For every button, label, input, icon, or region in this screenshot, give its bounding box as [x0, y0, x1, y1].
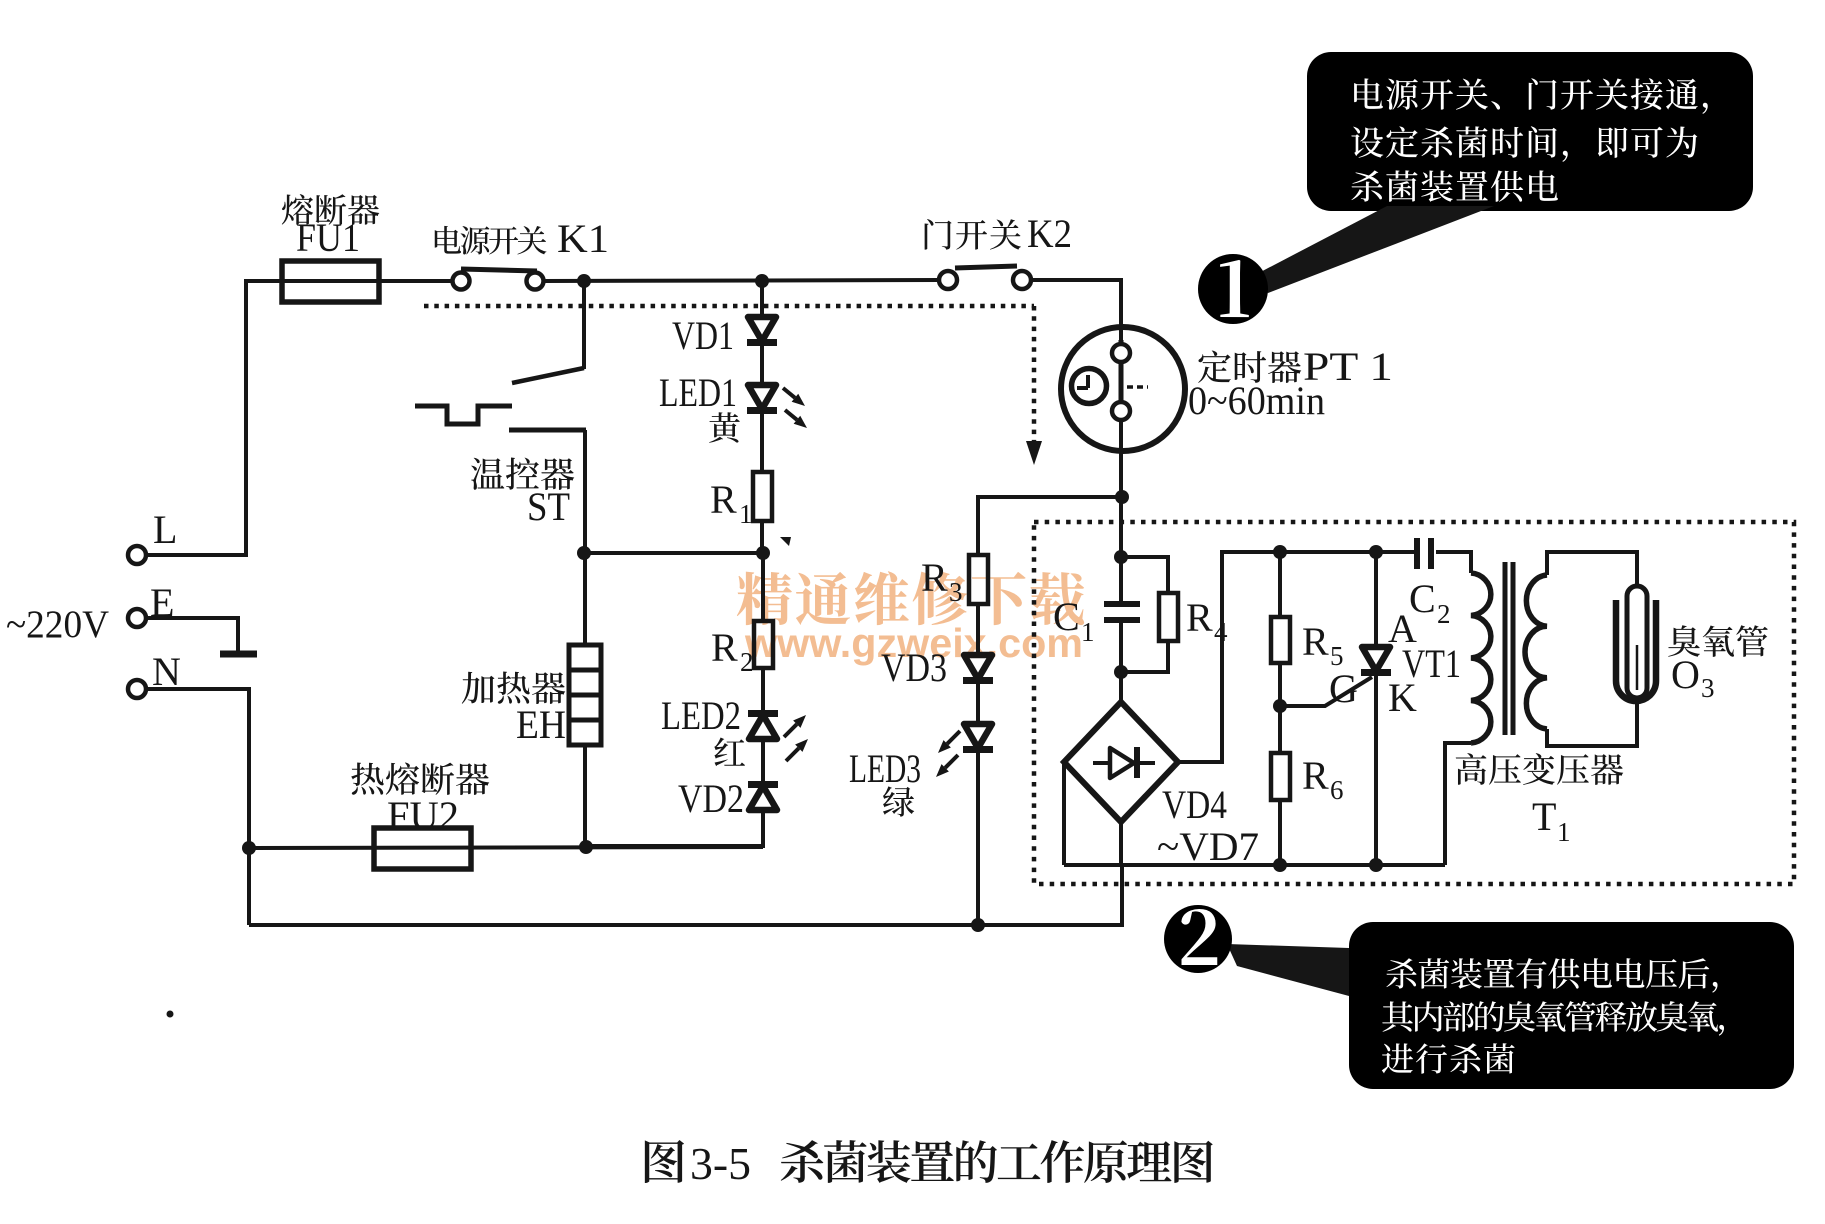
svg-text:VD1: VD1: [672, 313, 734, 358]
svg-text:C: C: [1053, 594, 1080, 639]
timer contact upper: [1119, 340, 1124, 361]
LED LED3: [964, 724, 992, 748]
callout 1 text line 3: [1351, 170, 1558, 202]
svg-text:VD3: VD3: [881, 645, 947, 690]
svg-text:FU1: FU1: [296, 215, 360, 260]
timer clock icon: [1072, 369, 1107, 404]
callout 1 marker circle: [1198, 254, 1268, 324]
wire R1 to node: [760, 521, 764, 553]
heater EH: [569, 645, 601, 745]
wire VD3-LED3: [976, 684, 980, 724]
svg-text:R: R: [711, 625, 738, 670]
LED LED2: [748, 710, 778, 717]
callout 1 text line 1: [1354, 78, 1708, 114]
wire bottom bus: [249, 865, 1122, 925]
node junction R1 bottom: [756, 546, 770, 560]
wire secondary top: [1547, 552, 1637, 588]
ozone tube O3: [1616, 600, 1656, 701]
wire FU1 to K1: [379, 279, 452, 283]
wire G node to R6: [1278, 706, 1282, 753]
svg-text:VD4: VD4: [1162, 782, 1227, 827]
svg-text:T: T: [1532, 794, 1556, 839]
resistor R1: [753, 472, 772, 521]
wire R2-LED2: [761, 667, 765, 714]
wire VD1 branch: [760, 281, 764, 317]
svg-text:3: 3: [949, 577, 963, 607]
wire C2 to transformer: [1436, 552, 1471, 573]
callout 1 tail: [1251, 206, 1494, 293]
terminal L: [128, 546, 146, 564]
resistor R2: [754, 621, 773, 668]
thermostat ST bimetal: [415, 406, 512, 424]
label 门开关: [925, 219, 1021, 250]
bridge diode symbol: [1093, 761, 1155, 765]
wire R5 top: [1278, 552, 1282, 617]
wire timer node to R3: [978, 497, 1122, 555]
wire R4 bottom: [1121, 641, 1168, 672]
node junction K1-ST: [577, 274, 591, 288]
node junction ST row left: [577, 546, 591, 560]
wire secondary bottom: [1547, 701, 1637, 746]
fuse FU2: [374, 828, 471, 869]
callout 2 text line 2: [1382, 1001, 1724, 1036]
svg-text:LED2: LED2: [661, 693, 741, 738]
svg-text:~220V: ~220V: [6, 603, 109, 646]
wire R3-VD3: [976, 604, 980, 655]
node junction G: [1273, 699, 1287, 713]
transformer T1 secondary: [1525, 575, 1547, 729]
switch K2 contact left: [939, 271, 957, 289]
wire L to FU1: [146, 281, 452, 555]
switch K2 contact right: [1013, 271, 1031, 289]
wire K2 to timer: [1031, 280, 1121, 340]
svg-text:1: 1: [1557, 817, 1571, 847]
dotted link vertical: [1032, 306, 1037, 443]
callout 2 text line 1: [1386, 958, 1717, 993]
svg-text:O: O: [1671, 652, 1700, 697]
label 电源开关: [435, 226, 547, 255]
node junction timer out: [1115, 490, 1129, 504]
wire VT1 cathode: [1374, 676, 1378, 865]
node junction N-FU2: [242, 841, 256, 855]
terminal E: [128, 609, 146, 627]
callout 2 tail: [1227, 944, 1349, 996]
capacitor C2: [1414, 538, 1420, 569]
transformer T1 primary: [1471, 573, 1491, 743]
wire to bridge: [1119, 672, 1123, 702]
label 绿: [883, 786, 914, 816]
callout 1 bubble: [1307, 52, 1753, 211]
wire bridge bottom: [1119, 822, 1123, 865]
switch ST lever: [512, 368, 584, 383]
switch K1 contact right: [527, 273, 544, 290]
capacitor C1: [1104, 601, 1140, 607]
svg-text:G: G: [1329, 666, 1358, 711]
wire VD1-LED1: [760, 346, 764, 385]
timer dashes: [1127, 385, 1148, 389]
wire VD2 down: [586, 810, 763, 846]
thermostat ST contact: [509, 428, 586, 433]
label 红: [714, 737, 745, 766]
dotted link arrowhead: [1026, 441, 1042, 465]
node junction C1 top: [1114, 550, 1128, 564]
wire N down to bottom bus: [146, 689, 249, 925]
diode VD3: [964, 655, 992, 679]
wire bridge right to top row: [1178, 552, 1414, 762]
fuse FU1: [282, 261, 379, 302]
node junction VT1 bus: [1369, 858, 1383, 872]
svg-text:6: 6: [1330, 775, 1344, 805]
transformer T1 core: [1503, 562, 1508, 735]
svg-text:L: L: [153, 507, 177, 552]
callout 2 marker circle: [1164, 905, 1232, 973]
callout 1 digit: [1220, 260, 1249, 317]
node junction R6 bus: [1273, 858, 1287, 872]
terminal N: [128, 680, 146, 698]
callout 2 bubble: [1349, 922, 1794, 1089]
caption 杀菌装置的工作原理图: [781, 1140, 1213, 1183]
dotted enclosure sterilizer unit: [1034, 522, 1794, 884]
callout 2 text line 3: [1382, 1043, 1515, 1073]
wire FU2 bus: [249, 847, 763, 848]
svg-text:3: 3: [1701, 673, 1715, 703]
wire LED2-VD2: [761, 740, 765, 783]
wire ST to EH: [583, 430, 587, 645]
wire LED1-R1: [760, 414, 764, 472]
node junction VT1 top: [1369, 545, 1383, 559]
svg-text:3-5: 3-5: [690, 1138, 751, 1189]
resistor R4: [1159, 593, 1178, 641]
callout 1 text line 2: [1351, 126, 1697, 162]
spot mark: [167, 1011, 174, 1018]
svg-text:0~60min: 0~60min: [1188, 378, 1325, 423]
resistor R5: [1271, 617, 1290, 663]
switch K2 lever: [955, 266, 1017, 268]
svg-text:EH: EH: [516, 702, 566, 747]
label 加热器: [462, 671, 565, 704]
label 温控器: [471, 458, 574, 490]
caption 图3-5: [645, 1140, 684, 1183]
wire VT1 anode: [1374, 552, 1378, 647]
wire E to ground: [146, 618, 238, 651]
node junction C1 bottom: [1114, 665, 1128, 679]
svg-text:LED1: LED1: [659, 370, 737, 415]
node junction LED3 bus: [971, 918, 985, 932]
wire into box: [1119, 497, 1123, 602]
wire timer down: [1119, 419, 1123, 497]
switch K1 contact left: [453, 273, 470, 290]
resistor R6: [1271, 753, 1290, 800]
svg-text:2: 2: [740, 647, 754, 677]
node junction VD1 branch: [755, 274, 769, 288]
svg-text:1: 1: [739, 499, 753, 529]
thyristor VT1: [1362, 647, 1390, 671]
timer contact lower: [1119, 361, 1124, 403]
wire EH down: [583, 745, 587, 848]
svg-text:R: R: [1302, 619, 1329, 664]
callout 2 digit: [1181, 909, 1217, 965]
wire C1 bottom: [1119, 620, 1123, 672]
bridge rectifier VD4~VD7: [1064, 702, 1178, 822]
label 高压变压器: [1456, 753, 1623, 785]
diode VD1: [748, 317, 776, 341]
wire primary return: [1445, 743, 1471, 865]
svg-text:K: K: [1388, 675, 1417, 720]
wire LED3 down: [976, 753, 980, 925]
label 臭氧管: [1668, 625, 1768, 657]
svg-text:ST: ST: [527, 484, 570, 529]
dotted link from K1: [424, 304, 1034, 309]
resistor R3: [969, 555, 988, 604]
svg-text:R: R: [921, 555, 948, 600]
wire R6 bottom: [1278, 800, 1282, 865]
node junction EH-FU2: [579, 840, 593, 854]
LED LED1: [748, 385, 776, 409]
wire bridge left leg: [1062, 762, 1066, 865]
svg-text:R: R: [710, 477, 737, 522]
watermark 精通维修下载: [737, 571, 1084, 625]
label 黄: [709, 412, 740, 442]
wire K1 node down: [582, 281, 586, 369]
svg-text:~VD7: ~VD7: [1157, 824, 1259, 869]
svg-text:R: R: [1302, 753, 1329, 798]
wire box bottom row: [1064, 863, 1445, 867]
wire R4 top: [1121, 557, 1168, 593]
svg-text:VD2: VD2: [678, 776, 744, 821]
svg-text:K2: K2: [1027, 211, 1072, 256]
ground: [220, 651, 257, 658]
timer PT1 body: [1061, 327, 1185, 451]
artifact mark: [780, 537, 791, 546]
svg-text:1: 1: [1081, 617, 1095, 647]
svg-text:LED3: LED3: [849, 746, 921, 791]
node junction R5 top: [1273, 545, 1287, 559]
label 熔断器: [282, 194, 379, 225]
svg-text:R: R: [1186, 595, 1213, 640]
svg-text:K1: K1: [557, 216, 609, 261]
diode VD2: [748, 781, 778, 788]
label 定时器PT 1: [1198, 351, 1301, 383]
wire node-R2: [761, 553, 765, 621]
switch K1 lever: [461, 269, 537, 271]
svg-text:2: 2: [1437, 599, 1451, 629]
wire K1 to K2: [544, 280, 939, 281]
label 热熔断器: [351, 762, 489, 795]
wire R5-G node: [1278, 663, 1282, 706]
wire gate: [1280, 677, 1372, 706]
wire node row: [584, 551, 763, 555]
svg-text:FU2: FU2: [387, 793, 459, 838]
